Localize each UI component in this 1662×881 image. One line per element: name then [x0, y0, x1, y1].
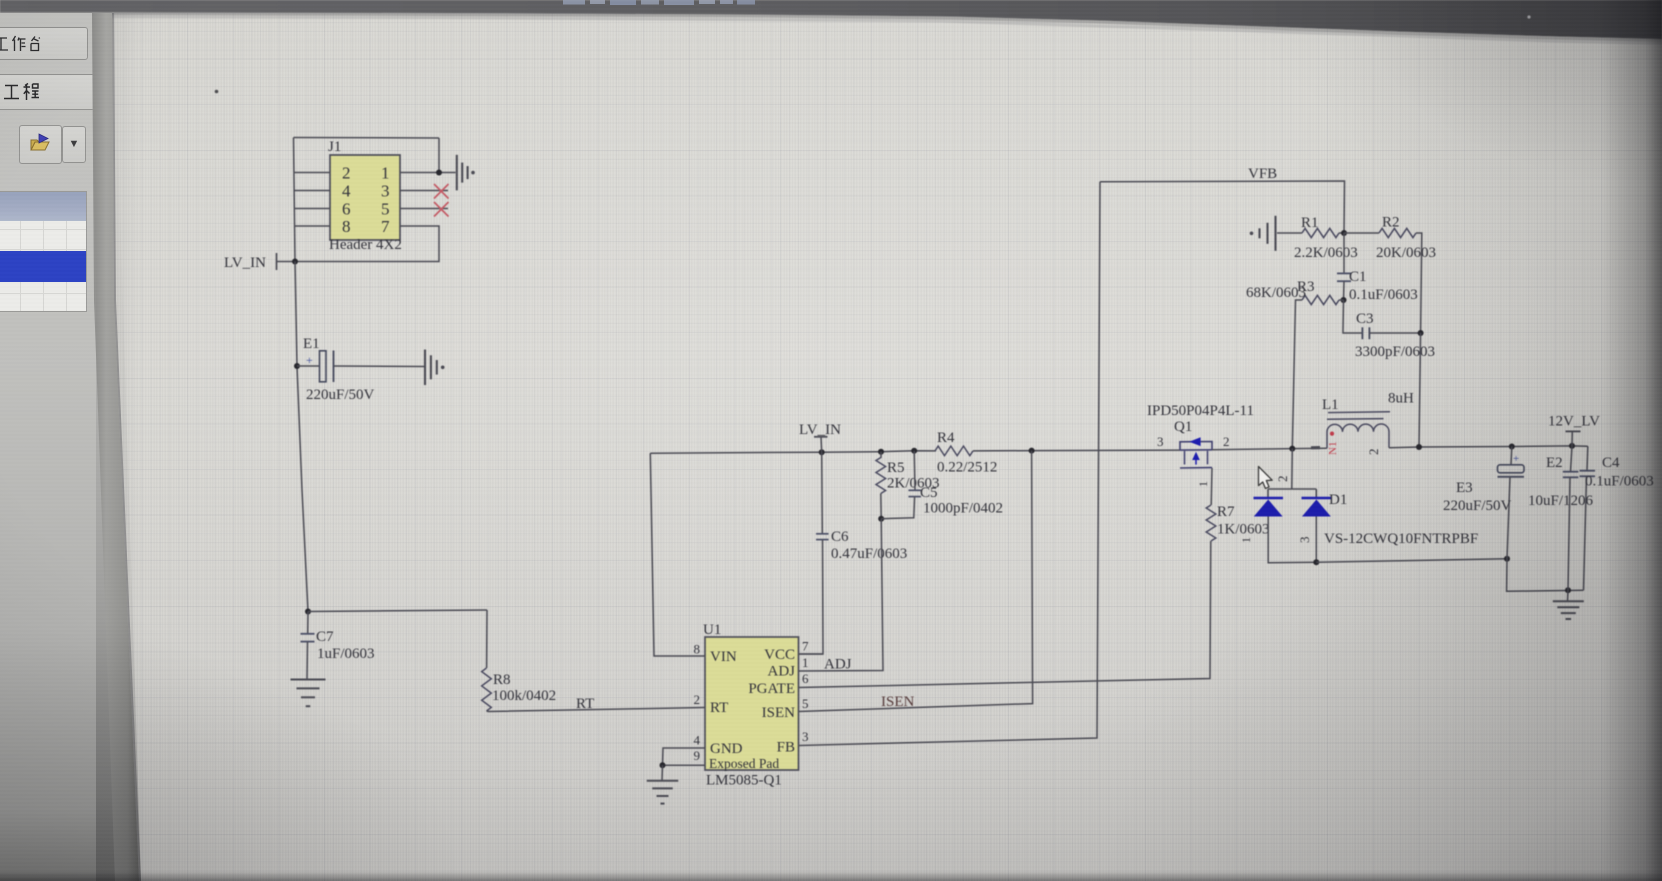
- svg-text:PGATE: PGATE: [748, 681, 795, 697]
- ground (J1 pin1, sideways): [456, 155, 458, 191]
- wire: FB line: [799, 182, 1101, 746]
- svg-text:1000pF/0402: 1000pF/0402: [923, 501, 1003, 517]
- resistor R8 100k/0402: [486, 610, 488, 668]
- wire: LV_IN bus: [650, 451, 936, 453]
- svg-text:4: 4: [342, 182, 351, 201]
- svg-text:VCC: VCC: [764, 647, 795, 663]
- svg-text:LV_IN: LV_IN: [799, 422, 841, 438]
- node: [911, 448, 917, 454]
- wire: J1 pin7 loop: [295, 226, 439, 262]
- svg-text:1uF/0603: 1uF/0603: [317, 646, 375, 662]
- svg-text:7: 7: [802, 639, 809, 654]
- ground (U1): [647, 780, 679, 782]
- svg-text:C1: C1: [1349, 269, 1367, 285]
- wire: J1 pin2: [294, 172, 330, 174]
- wire: ISEN sense line: [799, 451, 1033, 712]
- svg-text:3: 3: [1157, 434, 1164, 449]
- top window bar (monitor bezel band, perspective-sloped): [0, 0, 1662, 46]
- svg-text:R8: R8: [493, 672, 511, 688]
- wire: L1 to output: [1389, 446, 1588, 448]
- svg-text:FB: FB: [777, 740, 795, 756]
- no-connect X pin3: [434, 184, 449, 199]
- ground (output): [1567, 590, 1570, 601]
- ground (R1, sideways): [1274, 216, 1276, 251]
- svg-text:3: 3: [1297, 537, 1312, 544]
- svg-text:68K/0603: 68K/0603: [1246, 285, 1306, 301]
- stray ink dot: [215, 90, 219, 94]
- svg-text:C4: C4: [1602, 455, 1620, 471]
- wire: PGATE to R7: [799, 541, 1211, 688]
- svg-text:C5: C5: [920, 485, 938, 501]
- svg-text:8uH: 8uH: [1388, 391, 1414, 407]
- svg-text:1: 1: [1239, 537, 1253, 543]
- wire: drain to node: [1212, 448, 1327, 450]
- svg-text:LV_IN: LV_IN: [224, 255, 266, 271]
- node: [1416, 444, 1422, 450]
- svg-text:2: 2: [1366, 449, 1381, 456]
- wire: VFB top: [1100, 181, 1345, 233]
- svg-text:5: 5: [802, 696, 809, 711]
- glyph cheng: [24, 84, 40, 101]
- svg-text:+: +: [1513, 453, 1519, 465]
- svg-text:E1: E1: [303, 336, 320, 352]
- svg-text:220uF/50V: 220uF/50V: [1443, 498, 1512, 514]
- wire: U1 GND/pad to ground: [663, 748, 706, 765]
- wire: J1 pin3 stub (no connect): [400, 190, 448, 192]
- L1 red polarity dot and N1: [1330, 432, 1334, 436]
- wire: VCC pin7: [799, 653, 824, 655]
- svg-text:8: 8: [342, 217, 351, 236]
- svg-text:0.47uF/0603: 0.47uF/0603: [831, 546, 907, 562]
- svg-text:U1: U1: [703, 622, 721, 638]
- capacitor C1 0.1uF/0603: [1343, 233, 1345, 273]
- svg-text:ADJ: ADJ: [767, 664, 795, 680]
- svg-text:9: 9: [694, 748, 701, 763]
- glyph gong: [0, 38, 8, 50]
- capacitor E1 220uF/50V: [294, 363, 300, 369]
- capacitor C6 0.47uF/0603: [821, 452, 824, 533]
- svg-text:2: 2: [694, 692, 701, 707]
- svg-text:LM5085-Q1: LM5085-Q1: [706, 773, 782, 789]
- svg-text:3300pF/0603: 3300pF/0603: [1355, 344, 1435, 360]
- svg-text:3: 3: [381, 182, 390, 201]
- pin dash L1 pin1: [1311, 446, 1320, 449]
- wire: J1 top loop: [294, 137, 440, 140]
- node: [1509, 444, 1515, 450]
- svg-text:GND: GND: [710, 741, 743, 757]
- svg-text:R1: R1: [1301, 215, 1319, 231]
- svg-text:IPD50P04P4L-11: IPD50P04P4L-11: [1147, 403, 1254, 419]
- svg-text:100k/0402: 100k/0402: [492, 688, 556, 704]
- node: [1569, 443, 1575, 449]
- svg-text:N1: N1: [1327, 442, 1339, 455]
- svg-text:1: 1: [1196, 481, 1210, 487]
- svg-text:0.22/2512: 0.22/2512: [937, 460, 997, 476]
- resistor R5 2K/0603: [880, 452, 882, 458]
- IC U1 LM5085-Q1 body: [705, 637, 799, 770]
- node: [1341, 297, 1347, 303]
- capacitor E2 10uF/1206: [1571, 446, 1573, 472]
- wire: J1 pin8: [295, 225, 330, 227]
- node: [1418, 330, 1424, 336]
- svg-text:D1: D1: [1329, 492, 1347, 508]
- svg-text:J1: J1: [328, 139, 341, 155]
- svg-text:20K/0603: 20K/0603: [1376, 245, 1436, 261]
- svg-text:R2: R2: [1382, 215, 1400, 231]
- capacitor C5 1000pF/0402: [913, 451, 916, 490]
- svg-text:7: 7: [381, 217, 390, 236]
- wire: J1 pin4: [294, 190, 330, 192]
- resistor R3 68K/0603: [1339, 299, 1344, 301]
- wire: main left vertical: [295, 262, 308, 612]
- node: [878, 449, 884, 455]
- svg-text:C6: C6: [831, 529, 849, 545]
- svg-text:3: 3: [802, 729, 809, 744]
- wire: ADJ feedback: [799, 519, 884, 671]
- svg-text:Q1: Q1: [1174, 419, 1192, 435]
- splitter bar (slightly tilted, photo perspective): [0, 0, 180, 881]
- svg-text:+: +: [306, 353, 313, 367]
- svg-text:VS-12CWQ10FNTRPBF: VS-12CWQ10FNTRPBF: [1324, 531, 1478, 547]
- svg-text:2: 2: [342, 164, 351, 183]
- ground (C7): [291, 679, 326, 681]
- mouse cursor: [1259, 467, 1273, 489]
- wire: VIN pin8: [650, 453, 705, 656]
- svg-text:R7: R7: [1217, 504, 1235, 520]
- svg-text:C7: C7: [316, 629, 334, 645]
- node: LV_IN junction: [292, 259, 298, 265]
- svg-text:ADJ: ADJ: [824, 657, 852, 673]
- svg-text:4: 4: [694, 733, 701, 748]
- svg-text:2.2K/0603: 2.2K/0603: [1294, 245, 1358, 261]
- glyph zuo: [13, 36, 26, 51]
- svg-text:E2: E2: [1546, 455, 1563, 471]
- resistor R1 2.2K/0603: [1277, 232, 1302, 234]
- diode D1 VS-12CWQ10FNTRPBF (dual schottky): [1291, 449, 1294, 489]
- glyph gong: [4, 86, 19, 99]
- resistor R2 20K/0603: [1344, 232, 1379, 234]
- svg-text:RT: RT: [576, 696, 594, 712]
- node: switch node: [1289, 446, 1295, 452]
- svg-text:2: 2: [1275, 476, 1290, 483]
- svg-text:VIN: VIN: [710, 649, 737, 665]
- svg-text:8: 8: [694, 642, 701, 657]
- svg-text:6: 6: [342, 200, 351, 219]
- wire: J1 pin6: [294, 208, 330, 210]
- svg-text:6: 6: [802, 671, 809, 686]
- capacitor C4 0.1uF/0603: [1586, 446, 1589, 470]
- node: pin1 junction: [436, 170, 442, 176]
- svg-text:10uF/1206: 10uF/1206: [1528, 493, 1594, 509]
- wire: J1 pin5 stub (no connect): [400, 208, 448, 210]
- svg-text:1: 1: [802, 655, 809, 670]
- svg-text:12V_LV: 12V_LV: [1548, 414, 1600, 430]
- capacitor C3 3300pF/0603: [1343, 300, 1362, 333]
- svg-text:Header 4X2: Header 4X2: [329, 237, 402, 253]
- wire: C7 junction to R8: [308, 610, 487, 612]
- svg-text:R5: R5: [887, 460, 905, 476]
- svg-text:2: 2: [1223, 434, 1230, 449]
- svg-text:ISEN: ISEN: [762, 705, 796, 721]
- connector J1 (Header 4X2): [330, 155, 400, 240]
- node: [819, 449, 825, 455]
- capacitor C7 1uF/0603: [305, 609, 311, 615]
- node: [1029, 448, 1035, 454]
- wire: D1 anodes to output return: [1316, 559, 1507, 563]
- resistor R4 0.22/2512 (current sense): [935, 446, 973, 456]
- svg-text:R4: R4: [937, 430, 955, 446]
- svg-text:0.1uF/0603: 0.1uF/0603: [1349, 287, 1418, 303]
- svg-text:L1: L1: [1322, 397, 1339, 413]
- glyph tai: [31, 37, 40, 51]
- svg-text:ISEN: ISEN: [881, 694, 915, 710]
- svg-text:1K/0603: 1K/0603: [1217, 522, 1270, 538]
- svg-text:1: 1: [381, 164, 390, 183]
- svg-text:5: 5: [381, 200, 390, 219]
- wire: J1 pin1 to ground: [400, 172, 456, 174]
- svg-text:C3: C3: [1356, 311, 1374, 327]
- wire: [1419, 333, 1421, 447]
- svg-text:220uF/50V: 220uF/50V: [306, 387, 375, 403]
- svg-text:E3: E3: [1456, 480, 1473, 496]
- wire: [438, 138, 440, 173]
- svg-text:VFB: VFB: [1248, 166, 1277, 182]
- capacitor E3 220uF/50V: [1510, 447, 1513, 465]
- svg-text:RT: RT: [710, 700, 728, 716]
- node: [1341, 230, 1347, 236]
- svg-text:0.1uF/0603: 0.1uF/0603: [1585, 474, 1654, 490]
- ground (E1, sideways): [424, 350, 426, 386]
- node: [878, 516, 884, 522]
- svg-text:Exposed Pad: Exposed Pad: [709, 756, 779, 771]
- left sidebar: [0, 13, 96, 881]
- no-connect X pin5: [434, 202, 449, 217]
- resistor R7 1K/0603: [1206, 505, 1216, 541]
